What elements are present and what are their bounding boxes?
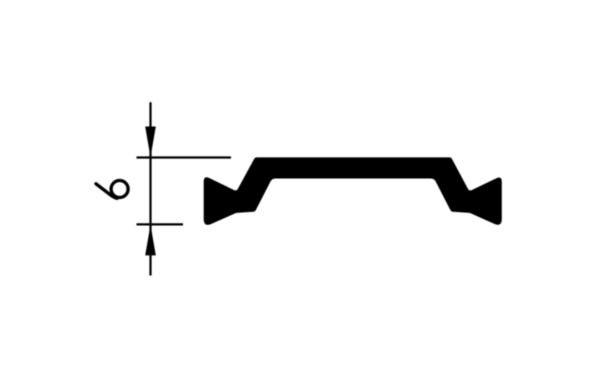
arrow top (145, 127, 156, 158)
extension line top (137, 156, 232, 158)
gasket profile cross-section (204, 157, 502, 224)
dimension line vertical (149, 102, 151, 275)
dimension text 6 (rotated) (96, 181, 128, 199)
arrow bottom (145, 225, 156, 256)
extension line bottom (137, 223, 184, 225)
